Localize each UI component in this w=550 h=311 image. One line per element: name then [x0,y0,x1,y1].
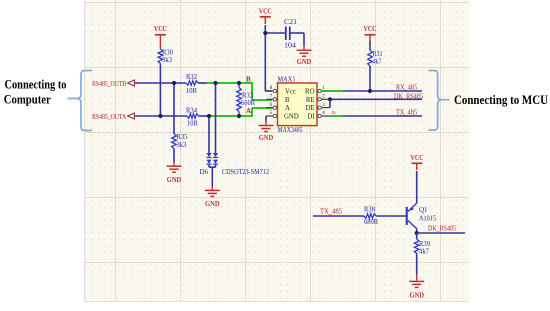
svg-text:Connecting to: Connecting to [5,78,67,92]
svg-text:3k3: 3k3 [177,141,187,149]
svg-text:7: 7 [270,94,273,100]
svg-text:5: 5 [270,110,273,116]
svg-text:Vcc: Vcc [285,89,296,96]
svg-text:MAX1: MAX1 [278,75,296,83]
svg-text:D6: D6 [200,168,209,176]
svg-text:VCC: VCC [259,8,272,16]
svg-text:A1015: A1015 [419,214,436,222]
svg-text:104: 104 [284,41,297,49]
svg-text:4k7: 4k7 [419,248,429,256]
svg-text:4: 4 [322,110,325,116]
svg-text:B: B [285,97,290,104]
svg-text:A: A [246,107,251,115]
svg-text:3: 3 [322,102,325,108]
svg-text:RS485_OUTA: RS485_OUTA [92,112,126,121]
svg-text:DE: DE [305,105,314,112]
svg-text:TX_485: TX_485 [396,107,417,116]
svg-text:GND: GND [297,58,312,66]
svg-text:R38: R38 [364,205,375,213]
svg-text:Computer: Computer [4,93,51,107]
svg-text:Q1: Q1 [419,206,428,214]
svg-text:GND: GND [409,292,424,300]
svg-text:VCC: VCC [154,25,167,33]
svg-text:RX_485: RX_485 [396,82,417,91]
svg-text:GND: GND [167,176,182,184]
svg-text:GND: GND [259,134,274,142]
svg-text:8: 8 [270,85,273,91]
svg-text:RO: RO [305,89,315,96]
svg-text:A: A [285,105,290,112]
svg-text:GND: GND [205,200,220,208]
svg-text:C21: C21 [284,18,298,26]
svg-text:4k7: 4k7 [373,57,382,65]
svg-text:10R: 10R [187,119,198,127]
svg-text:B: B [246,76,251,84]
svg-text:R34: R34 [186,106,197,114]
svg-text:680R: 680R [364,218,378,226]
svg-text:DK_RS485: DK_RS485 [428,224,456,233]
svg-text:Connecting to MCU: Connecting to MCU [454,93,548,107]
svg-text:MAX3485: MAX3485 [278,126,303,134]
svg-text:DI: DI [307,114,315,121]
svg-text:560R: 560R [241,99,255,107]
svg-text:2: 2 [322,94,325,100]
svg-text:RE: RE [306,97,315,104]
svg-text:3k3: 3k3 [162,56,172,64]
svg-text:TX_485: TX_485 [320,206,342,215]
svg-text:CDSOT23-SM712: CDSOT23-SM712 [222,168,269,176]
svg-text:GND: GND [284,114,299,121]
svg-text:R32: R32 [186,73,197,81]
svg-text:10R: 10R [186,87,197,95]
svg-text:DK_RS485: DK_RS485 [394,91,423,100]
svg-text:VCC: VCC [364,25,377,33]
svg-text:6: 6 [270,102,273,108]
svg-text:VCC: VCC [411,154,424,162]
svg-text:RS485_OUTB: RS485_OUTB [92,79,126,88]
